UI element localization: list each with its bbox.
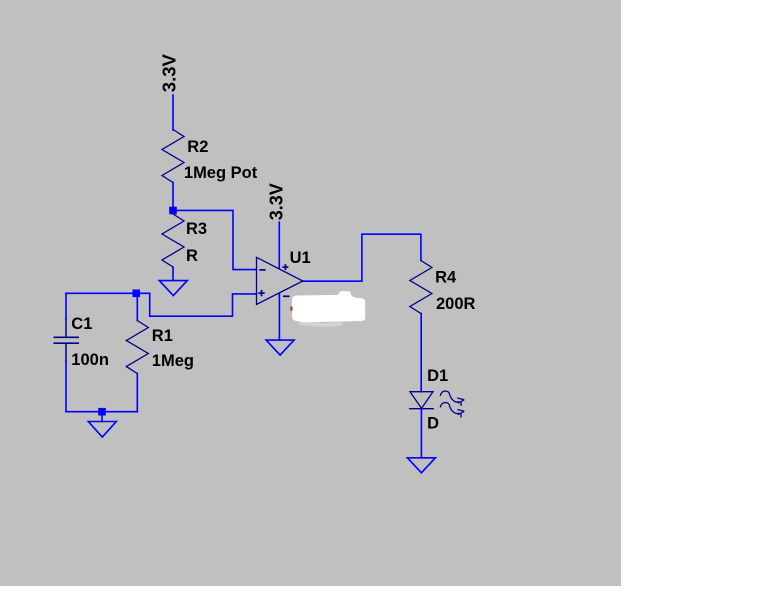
svg-text:R: R bbox=[186, 247, 198, 265]
svg-text:D1: D1 bbox=[427, 367, 448, 385]
svg-text:C1: C1 bbox=[71, 315, 92, 333]
svg-text:1Meg: 1Meg bbox=[152, 352, 194, 370]
svg-text:R2: R2 bbox=[187, 138, 208, 156]
svg-text:R1: R1 bbox=[152, 327, 173, 345]
svg-text:D: D bbox=[427, 414, 439, 432]
svg-text:3.3V: 3.3V bbox=[267, 183, 287, 220]
svg-text:3.3V: 3.3V bbox=[159, 53, 180, 92]
svg-text:U1: U1 bbox=[290, 249, 311, 267]
svg-text:1Meg Pot: 1Meg Pot bbox=[184, 164, 258, 182]
svg-text:200R: 200R bbox=[436, 295, 476, 313]
svg-text:R3: R3 bbox=[186, 220, 207, 238]
svg-text:R4: R4 bbox=[435, 268, 457, 286]
svg-text:100n: 100n bbox=[71, 351, 109, 369]
